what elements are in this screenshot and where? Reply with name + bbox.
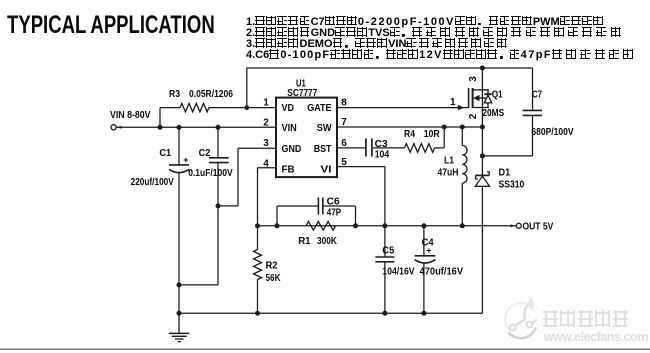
resistor R2 bbox=[254, 226, 262, 313]
label R4 value 10R bbox=[424, 129, 441, 140]
resistor R3 bbox=[180, 103, 209, 111]
ground bbox=[169, 313, 190, 341]
svg-text:56K: 56K bbox=[266, 273, 282, 284]
svg-text:2: 2 bbox=[468, 113, 479, 119]
wire: GATE pin 8 to Q1 gate with arrow bbox=[337, 105, 468, 110]
label C7 bbox=[532, 89, 542, 100]
svg-text:SW: SW bbox=[317, 123, 332, 134]
svg-text:47uH: 47uH bbox=[438, 168, 459, 179]
svg-text:BST: BST bbox=[314, 144, 332, 155]
transistor Q1 N-MOSFET bbox=[469, 68, 492, 127]
svg-text:VIN: VIN bbox=[282, 123, 297, 134]
label C6 bbox=[327, 197, 340, 208]
wire: R3 left leg down to VIN rail bbox=[159, 108, 161, 128]
svg-text:C1: C1 bbox=[159, 148, 171, 159]
label C7 value 680P/100V bbox=[531, 127, 573, 138]
label R3 bbox=[169, 89, 180, 100]
note text block bbox=[246, 16, 637, 61]
capacitor C7 snubber bbox=[482, 68, 542, 156]
svg-text:220uf/100V: 220uf/100V bbox=[131, 177, 174, 188]
wire: BST pin 6 to C3 bbox=[337, 147, 365, 149]
node: C5 on ground rail bbox=[382, 311, 387, 316]
node: C4 tap on output rail bbox=[421, 223, 426, 228]
svg-text:Q1: Q1 bbox=[492, 90, 503, 101]
pin label VI bbox=[321, 164, 332, 175]
wire: SW node down to D1 bbox=[481, 127, 483, 175]
label C3 value 104 bbox=[375, 150, 390, 161]
label C2 bbox=[199, 148, 211, 159]
label Q1 value 20MS bbox=[482, 108, 504, 119]
node: R1 C6 right junction bbox=[353, 223, 358, 228]
border: bottom page rule bbox=[0, 348, 650, 350]
svg-text:10R: 10R bbox=[424, 129, 441, 140]
svg-text:6: 6 bbox=[341, 138, 347, 149]
svg-text:3: 3 bbox=[263, 138, 269, 149]
label Q1 bbox=[492, 90, 503, 101]
label C3 bbox=[375, 139, 388, 150]
wire: R4 up to SW rail bbox=[435, 127, 445, 148]
capacitor C4 electrolytic output cap bbox=[415, 226, 436, 313]
node: C6 branch left tap bbox=[275, 223, 280, 228]
label R1 value 300K bbox=[317, 236, 338, 247]
pin number 5 bbox=[341, 157, 347, 168]
pin number 7 bbox=[341, 117, 347, 128]
svg-text:C7: C7 bbox=[532, 89, 542, 100]
diode D1 Schottky bbox=[475, 172, 489, 313]
node: C1 C2 ground branch junction bbox=[177, 282, 182, 287]
svg-text:104/16V: 104/16V bbox=[382, 267, 415, 278]
pin label VD bbox=[282, 103, 295, 114]
chip U1 SC7777 body bbox=[276, 98, 337, 178]
pin label SW bbox=[317, 123, 332, 134]
wire: SW pin 7 to switch node bbox=[337, 126, 482, 128]
label C4 bbox=[422, 238, 434, 249]
wire: top rail from VD/R3 node to Q1 drain and C7 bbox=[247, 68, 533, 108]
wire: VI pin 5 to output sense bbox=[337, 167, 385, 226]
node: R2 on ground rail bbox=[255, 311, 260, 316]
label C5 bbox=[382, 246, 394, 257]
wire: FB pin 4 to feedback node bbox=[258, 168, 277, 226]
label C4 value 470uf/16V bbox=[420, 267, 464, 278]
capacitor C5 bbox=[375, 226, 394, 313]
svg-text:1: 1 bbox=[263, 98, 269, 109]
terminal: OUT 5V port with arrow bbox=[511, 223, 522, 228]
node: C1 tap on VIN rail bbox=[177, 125, 182, 130]
label R1 bbox=[298, 236, 311, 247]
svg-text:300K: 300K bbox=[317, 236, 338, 247]
label Q1 gate pin number 1 bbox=[450, 97, 456, 108]
label C6 value 47P bbox=[327, 208, 342, 219]
pin number 3 bbox=[263, 138, 269, 149]
svg-text:2: 2 bbox=[263, 118, 269, 129]
wire: VIN rail from input terminal to chip VIN pin 2 bbox=[116, 126, 276, 128]
label L1 value 47uH bbox=[438, 168, 459, 179]
svg-text:D1: D1 bbox=[499, 168, 511, 179]
wire: VD pin 1 line from R3 to chip bbox=[160, 107, 276, 109]
svg-text:470uf/16V: 470uf/16V bbox=[420, 267, 464, 278]
capacitor C6 with branch wires bbox=[277, 198, 356, 226]
svg-text:R4: R4 bbox=[404, 129, 415, 140]
svg-text:0.1uF/100V: 0.1uF/100V bbox=[188, 168, 233, 179]
label C1 value 220uf/100V bbox=[131, 177, 174, 188]
wire: C3 to R4 bbox=[373, 147, 405, 149]
svg-text:C4: C4 bbox=[422, 238, 434, 249]
node: R4 tap on SW rail bbox=[442, 125, 447, 130]
node: Q1 source on SW rail bbox=[480, 125, 485, 130]
svg-text:3: 3 bbox=[468, 76, 479, 82]
pin number 1 bbox=[263, 98, 269, 109]
wire: C2 branch joins C1 branch bbox=[179, 284, 218, 286]
label R3 value 0.05R/1206 bbox=[189, 89, 233, 100]
pin number 8 bbox=[341, 98, 347, 109]
pin label GND bbox=[282, 144, 302, 155]
pin label BST bbox=[314, 144, 332, 155]
svg-text:+: + bbox=[183, 155, 188, 165]
pin number 4 bbox=[263, 159, 269, 170]
svg-text:R3: R3 bbox=[169, 89, 180, 100]
capacitor C1 electrolytic input cap bbox=[169, 127, 189, 285]
svg-text:VD: VD bbox=[282, 103, 295, 114]
node: ground rail left end bbox=[177, 311, 182, 316]
node: L1 tap on SW rail bbox=[460, 125, 465, 130]
inductor L1 bbox=[462, 127, 467, 226]
label U1 bbox=[296, 79, 306, 90]
terminal: VIN input port bbox=[111, 125, 122, 130]
svg-text:R2: R2 bbox=[266, 261, 278, 272]
label SC7777 bbox=[287, 88, 317, 99]
node: C7 snubber tap above D1 bbox=[480, 153, 485, 158]
svg-text:104: 104 bbox=[375, 150, 390, 161]
label C1 bbox=[159, 148, 171, 159]
label D1 bbox=[499, 168, 511, 179]
capacitor C3 bbox=[366, 139, 372, 157]
svg-text:8: 8 bbox=[341, 98, 347, 109]
node: C2 GND junction bbox=[216, 203, 221, 208]
svg-text:VIN 8-80V: VIN 8-80V bbox=[110, 109, 151, 121]
label R2 value 56K bbox=[266, 273, 282, 284]
pin label VIN bbox=[282, 123, 297, 134]
svg-text:GATE: GATE bbox=[307, 103, 331, 114]
node: C4 on ground rail bbox=[421, 311, 426, 316]
label C2 value 0.1uF/100V bbox=[188, 168, 233, 179]
node: Q1 drain junction on top rail bbox=[480, 66, 485, 71]
svg-text:C2: C2 bbox=[199, 148, 211, 159]
svg-text:OUT 5V: OUT 5V bbox=[523, 221, 554, 233]
svg-text:680P/100V: 680P/100V bbox=[531, 127, 573, 138]
title TYPICAL APPLICATION bbox=[7, 14, 215, 37]
pin label GATE bbox=[307, 103, 331, 114]
svg-text:SS310: SS310 bbox=[499, 179, 525, 190]
svg-text:R1: R1 bbox=[298, 236, 311, 247]
wire: ground rail bbox=[179, 312, 482, 314]
wire: down to ground rail bbox=[178, 285, 180, 313]
svg-text:20MS: 20MS bbox=[482, 108, 504, 119]
svg-text:SC7777: SC7777 bbox=[287, 88, 317, 99]
svg-text:0.05R/1206: 0.05R/1206 bbox=[189, 89, 233, 100]
svg-text:L1: L1 bbox=[444, 156, 454, 167]
svg-text:FB: FB bbox=[282, 164, 295, 175]
wire: output rail from FB node to OUT terminal bbox=[258, 225, 517, 227]
label OUT 5V bbox=[523, 221, 554, 233]
label L1 bbox=[444, 156, 454, 167]
node: C2 tap on VIN rail bbox=[216, 125, 221, 130]
label Q1 drain pin number 3 bbox=[468, 76, 479, 82]
svg-text:VI: VI bbox=[321, 164, 332, 175]
label R2 bbox=[266, 261, 278, 272]
pin label FB bbox=[282, 164, 295, 175]
node: feedback node bbox=[255, 223, 260, 228]
svg-text:C6: C6 bbox=[327, 197, 340, 208]
capacitor C2 input bypass cap bbox=[209, 127, 229, 285]
svg-text:GND: GND bbox=[282, 144, 302, 155]
node: R3 tap on VIN rail bbox=[158, 125, 163, 130]
node: junction of R3, VD pin 1 wire and top rail vertical bbox=[244, 105, 249, 110]
pin number 2 bbox=[263, 118, 269, 129]
resistor R1 bbox=[306, 221, 336, 230]
pin number 6 bbox=[341, 138, 347, 149]
label VIN 8-80V bbox=[110, 109, 151, 121]
svg-text:C5: C5 bbox=[382, 246, 394, 257]
watermark: elecfans logo and site name bbox=[498, 295, 650, 347]
resistor R4 bbox=[405, 144, 435, 153]
svg-text:47P: 47P bbox=[327, 208, 342, 219]
svg-text:1: 1 bbox=[450, 97, 456, 108]
node: L1 on output rail bbox=[460, 223, 465, 228]
label C5 value 104/16V bbox=[382, 267, 415, 278]
wire: chip GND pin 3 to C2 bottom bbox=[218, 148, 276, 206]
label D1 value SS310 bbox=[499, 179, 525, 190]
label Q1 source pin number 2 bbox=[468, 113, 479, 119]
label R4 bbox=[404, 129, 415, 140]
node: VI C5 tap on output rail bbox=[382, 223, 387, 228]
